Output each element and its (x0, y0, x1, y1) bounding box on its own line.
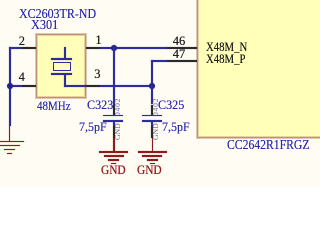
pin 1 of X301 (86, 47, 99, 49)
net label GND (under C325) (137, 164, 162, 177)
junction at pin3/C325 branch (149, 83, 155, 89)
wire pin47 elbow (151, 60, 167, 62)
pin number 47 (173, 48, 186, 61)
capacitor C323 (113, 105, 115, 115)
ground symbol left (9, 126, 11, 141)
IC U1 CC2642R1FRGZ body (197, 0, 320, 138)
footprint text 0402 (C323) (114, 98, 122, 116)
designator X301 (31, 18, 58, 31)
wire C325 branch down (151, 85, 153, 105)
junction at pin4/left vertical (7, 83, 13, 89)
pin number 1 (95, 34, 101, 47)
crystal X301 body (36, 34, 87, 98)
ground symbol under C325 (152, 138, 154, 151)
pin name X48M_P (206, 53, 245, 66)
junction at C323 branch (111, 45, 117, 51)
crystal symbol X301 (64, 47, 66, 60)
designator C325 (158, 99, 184, 112)
net label GND (under C323) (101, 164, 126, 177)
pin number 4 (19, 71, 25, 84)
label XC2603TR-ND (19, 7, 96, 21)
footprint text 0402 (C325) (152, 98, 160, 116)
wire left vertical to GND (9, 47, 11, 126)
wire pin3 to C325 branch (100, 85, 154, 87)
pin 4 of X301 (22, 85, 36, 87)
wire pin2 to left vertical (9, 47, 22, 49)
label CC2642R1FRGZ (227, 138, 310, 152)
pin number 2 (19, 35, 25, 48)
pin 47 of U1 (167, 60, 197, 62)
wire C323 branch down (113, 47, 115, 105)
capacitor C325 (151, 105, 153, 115)
wire pin4 to left vertical (9, 85, 22, 87)
value 48MHz (37, 100, 71, 113)
value 7,5pF (C325) (162, 121, 190, 134)
value 7,5pF (C323) (79, 121, 107, 134)
net text GND (C323) (114, 123, 122, 140)
pin 46 of U1 (166, 47, 197, 49)
pin name X48M_N (206, 41, 247, 54)
pin number 46 (173, 35, 186, 48)
designator C323 (87, 99, 113, 112)
wire pin1 to pin46 (100, 47, 167, 49)
pin number 3 (94, 68, 100, 81)
pin 3 of X301 (86, 85, 100, 87)
ground symbol under C323 (113, 138, 115, 151)
pin 2 of X301 (22, 47, 36, 49)
net text GND (C325) (152, 123, 160, 140)
